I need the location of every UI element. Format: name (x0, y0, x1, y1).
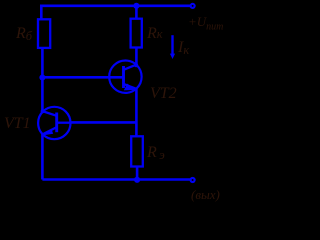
label Rb value (16, 25, 32, 44)
node A junction dot (39, 74, 45, 80)
wire Rk top (135, 6, 138, 19)
wire Re bottom (136, 167, 139, 180)
transistor VT1 (38, 107, 70, 139)
wire VT1 emitter down (41, 134, 44, 180)
wire Rk bottom to VT2 collector (135, 48, 138, 66)
resistor Re (131, 136, 143, 166)
label Rk value (147, 25, 163, 43)
wire VT1 base to node B (70, 121, 136, 124)
wire top rail (41, 6, 192, 19)
node bottom rail / Re junction dot (134, 177, 140, 183)
label Ik current (178, 39, 189, 58)
terminal bottom right (191, 178, 195, 182)
label VT2 (150, 85, 177, 103)
resistor Rb (38, 19, 50, 48)
node top rail / Rk junction dot (133, 3, 139, 9)
wire Rb bottom to node to VT1 collector (41, 48, 44, 111)
label VT1 (4, 115, 31, 133)
label +Upit supply (188, 14, 223, 33)
wire VT2 emitter down to Re (135, 88, 138, 136)
terminal +U top right (191, 4, 195, 8)
label Re value (147, 144, 167, 163)
current arrow Ik (170, 35, 175, 59)
wire bottom rail (42, 178, 192, 181)
wire node A to VT2 base (42, 76, 122, 79)
resistor Rk (131, 19, 142, 48)
label (vyh) output (191, 187, 220, 203)
transistor VT2 (109, 60, 141, 92)
